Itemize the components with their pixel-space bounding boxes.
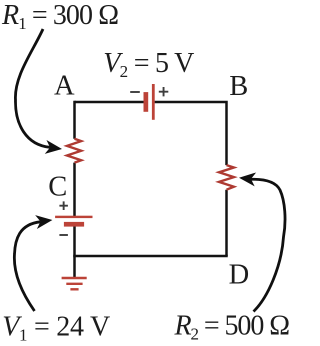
svg-text:R2 = 500 Ω: R2 = 500 Ω [174, 311, 291, 344]
svg-text:B: B [229, 71, 248, 102]
svg-text:A: A [54, 71, 75, 102]
svg-text:R1 = 300 Ω: R1 = 300 Ω [1, 0, 119, 33]
svg-text:D: D [229, 259, 250, 290]
svg-text:V2 = 5 V: V2 = 5 V [103, 48, 194, 81]
svg-text:V1 = 24 V: V1 = 24 V [2, 312, 110, 345]
svg-text:C: C [48, 171, 67, 202]
